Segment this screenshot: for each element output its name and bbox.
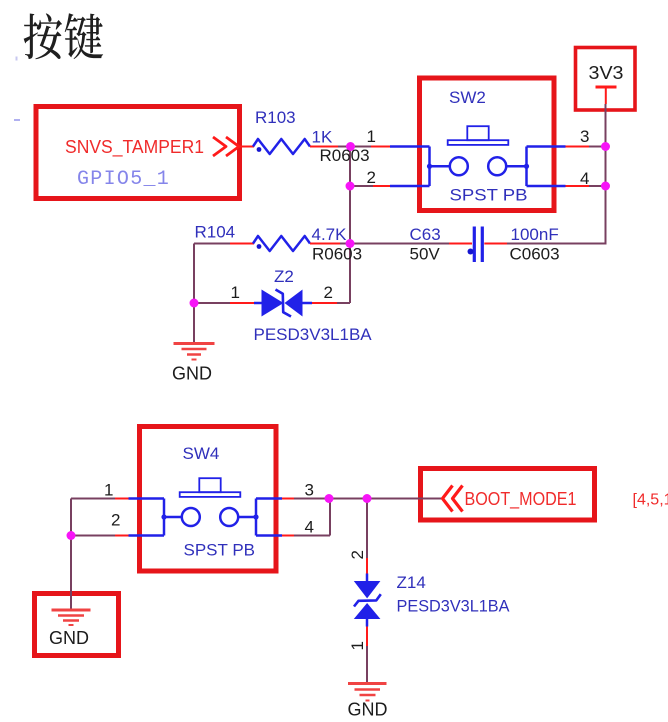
svg-text:GND: GND <box>49 628 89 648</box>
svg-text:3: 3 <box>580 127 589 146</box>
svg-text:R0603: R0603 <box>312 245 362 264</box>
svg-text:SNVS_TAMPER1: SNVS_TAMPER1 <box>65 137 204 158</box>
svg-text:SW2: SW2 <box>449 88 486 107</box>
svg-text:SPST PB: SPST PB <box>184 541 256 560</box>
svg-text:R104: R104 <box>195 223 236 242</box>
svg-text:Z14: Z14 <box>397 573 426 592</box>
svg-text:1: 1 <box>348 641 367 650</box>
svg-text:2: 2 <box>324 283 333 302</box>
svg-text:1: 1 <box>367 127 376 146</box>
svg-text:2: 2 <box>348 550 367 559</box>
svg-text:GPIO5_1: GPIO5_1 <box>77 168 170 191</box>
svg-text:PESD3V3L1BA: PESD3V3L1BA <box>254 325 373 344</box>
svg-text:3V3: 3V3 <box>589 63 624 83</box>
svg-text:[4,5,1: [4,5,1 <box>633 492 668 509</box>
svg-text:2: 2 <box>111 511 120 530</box>
svg-text:1K: 1K <box>312 128 333 147</box>
svg-text:SW4: SW4 <box>183 444 220 463</box>
svg-text:PESD3V3L1BA: PESD3V3L1BA <box>397 597 511 616</box>
svg-text:R103: R103 <box>255 108 296 127</box>
svg-text:R0603: R0603 <box>320 146 370 165</box>
svg-text:50V: 50V <box>410 245 441 264</box>
svg-text:1: 1 <box>231 283 240 302</box>
svg-text:Z2: Z2 <box>274 267 294 286</box>
svg-text:C63: C63 <box>410 225 441 244</box>
svg-text:2: 2 <box>367 168 376 187</box>
svg-text:GND: GND <box>172 364 212 384</box>
svg-text:BOOT_MODE1: BOOT_MODE1 <box>465 489 577 510</box>
svg-text:SPST PB: SPST PB <box>450 186 528 205</box>
svg-text:4.7K: 4.7K <box>312 225 348 244</box>
svg-text:4: 4 <box>580 169 589 188</box>
svg-text:3: 3 <box>305 481 314 500</box>
svg-text:4: 4 <box>305 518 314 537</box>
svg-text:1: 1 <box>104 481 113 500</box>
svg-text:GND: GND <box>348 700 388 720</box>
svg-text:C0603: C0603 <box>510 245 560 264</box>
svg-text:100nF: 100nF <box>511 225 559 244</box>
